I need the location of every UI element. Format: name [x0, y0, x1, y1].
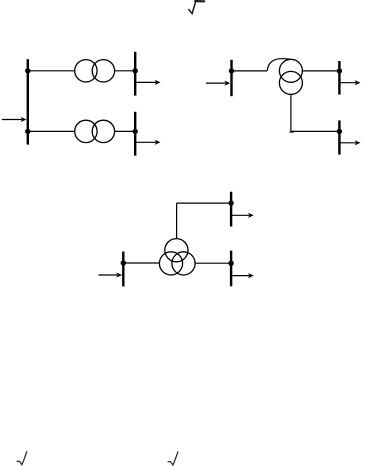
bus 2 (top-left circuit, upper right bus)	[134, 52, 136, 96]
wire corner to bus 6	[291, 130, 340, 132]
wire T2 to bus 3	[115, 130, 136, 132]
wire T4 to bus 9	[195, 262, 231, 264]
node C (junction dot bus2)	[133, 68, 138, 73]
bus 8 (middle circuit, left bus)	[122, 252, 124, 287]
transformer T1 (two-winding)	[75, 60, 115, 82]
bus 3 (top-left circuit, lower right bus)	[134, 112, 136, 156]
wire bus4 to transformer T3	[232, 70, 268, 72]
wire T1 to bus 2	[115, 70, 136, 72]
node H (junction dot bus7)	[228, 200, 233, 205]
check mark annotation bottom middle	[168, 452, 178, 465]
bus 6 (top-right circuit, lower right bus)	[338, 120, 340, 154]
check mark annotation bottom left	[17, 452, 27, 465]
wire T3 secondary down	[290, 94, 292, 131]
wire bus1 to transformer T2	[28, 130, 75, 132]
node J (junction dot bus9)	[228, 261, 233, 266]
source arrow into bus 8	[98, 272, 122, 277]
wire tertiary corner to bus 7	[177, 202, 232, 204]
load arrow from bus 3	[135, 140, 160, 145]
bus 5 (top-right circuit, upper right bus)	[338, 61, 340, 95]
bus 9 (middle circuit, right bus)	[230, 251, 232, 287]
wire bus8 to transformer T4	[123, 262, 159, 264]
wire bus1 to transformer T1	[28, 70, 75, 72]
load arrow from bus 7	[231, 213, 254, 218]
wire loop over T3 primary	[267, 59, 290, 71]
node D (junction dot bus3)	[133, 129, 138, 134]
load arrow from bus 6	[339, 140, 360, 145]
wire T3 to bus 5	[302, 70, 339, 72]
node I (junction dot bus8)	[121, 260, 126, 265]
node B (junction dot bus1 lower)	[25, 129, 30, 134]
bus 7 (middle circuit, top right bus)	[230, 192, 232, 227]
load arrow from bus 9	[231, 273, 254, 278]
node F (junction dot bus5)	[337, 68, 342, 73]
load arrow from bus 5	[339, 80, 360, 85]
bus 1 (left main bus, top-left circuit)	[27, 59, 29, 144]
load arrow from bus 2	[135, 80, 160, 85]
node E (junction dot bus4)	[229, 68, 234, 73]
node G (junction dot bus6)	[337, 129, 342, 134]
source arrow into bus 4	[206, 81, 230, 86]
wire T4 tertiary up	[176, 203, 178, 239]
node A (junction dot bus1 upper)	[25, 68, 30, 73]
corner tick arrowhead	[288, 130, 293, 133]
bus 4 (top-right circuit, left bus)	[230, 60, 232, 96]
transformer T2 (two-winding)	[75, 120, 115, 142]
source arrow into bus 1	[2, 117, 27, 122]
check mark annotation top	[188, 1, 204, 14]
transformer T4 (three-winding)	[159, 239, 195, 275]
transformer T3 (two-winding, vertical)	[279, 59, 302, 94]
